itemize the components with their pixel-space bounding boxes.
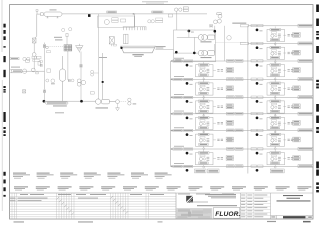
svg-text:FLUOR.: FLUOR. (215, 211, 240, 218)
label on header 2 (152, 11, 163, 13)
wire dotted FR5 (283, 139, 293, 141)
node row FL4 (186, 117, 189, 120)
recirc instrument (227, 36, 231, 40)
agitator box with X (109, 37, 114, 47)
title block frame (176, 193, 313, 219)
instrument cluster FL5 (196, 131, 214, 149)
filter F-1 (33, 38, 37, 53)
label boxes FL2 (226, 86, 233, 91)
revision table frame (10, 193, 177, 219)
wire pot down (33, 56, 35, 69)
vessel legs (47, 16, 59, 18)
wire dotted R2 (283, 52, 293, 54)
drawing number (283, 216, 306, 218)
wire dip line (66, 37, 68, 45)
upper instrument pair left (23, 57, 26, 60)
pump discharge riser B (214, 44, 216, 53)
wire dotted FL6 (213, 157, 223, 159)
pipe spec label bottom run (46, 102, 69, 104)
node row FR4 (256, 117, 259, 120)
row line F2 (171, 78, 314, 80)
wire dotted FL1 (213, 69, 223, 71)
label boxes FR2 (293, 86, 300, 91)
label above inlet flag (11, 67, 20, 68)
node row FR5 (256, 133, 259, 136)
approval grid text (241, 194, 245, 197)
valve above run (40, 64, 42, 67)
instrument cluster FL3 (196, 98, 214, 116)
instrument bubbles right pair (148, 20, 151, 23)
instrument cluster R2 (267, 44, 285, 62)
node row FR6 (256, 152, 259, 155)
distribution manifold riser right (247, 26, 249, 174)
distributor sparge comb (123, 27, 146, 30)
label under valve cluster (47, 51, 51, 53)
fluor logo mark (186, 196, 193, 203)
node row FL1 (186, 64, 189, 67)
label boxes FR1 (293, 68, 300, 73)
wire exchanger drain (67, 51, 69, 80)
instrument cluster FL1 (196, 62, 214, 80)
instrument cluster R1 (267, 26, 285, 44)
wire dotted FL5 (213, 139, 223, 141)
row line R2 (248, 43, 313, 45)
footer notes (14, 221, 25, 222)
node run junction right (80, 100, 83, 103)
label stack 1 (112, 18, 118, 20)
node on tank riser (black square) (102, 81, 104, 83)
node skid top (188, 30, 191, 33)
terminator dots and labels (186, 169, 189, 172)
discharge instrument circle (116, 100, 120, 104)
row line F6 (171, 148, 314, 150)
wire feed drop to filter (35, 14, 37, 38)
title block approval grid (240, 193, 270, 219)
label tank tag (132, 54, 143, 55)
node header junction (black square) (88, 14, 91, 17)
top instruments left of skid (175, 7, 189, 30)
instrument cluster FR5 (267, 131, 285, 149)
margin flag box (10, 57, 19, 59)
label boxes R2 (293, 50, 300, 55)
label on header 1 (107, 11, 117, 13)
package box around instruments (98, 16, 135, 27)
instrument cluster FR2 (267, 80, 285, 98)
instrument cluster FL2 (196, 80, 214, 98)
label boxes right of package (156, 18, 163, 20)
revision check slashes mid (111, 196, 129, 214)
label valve station (133, 103, 137, 104)
wire dotted FR4 (283, 122, 293, 124)
wire dotted FR3 (283, 106, 293, 108)
wire into pump 1 (177, 30, 199, 37)
small box with dip line (66, 34, 68, 37)
revision row text (18, 197, 48, 200)
label tank right (156, 46, 166, 47)
note text in enclosure (175, 59, 181, 60)
equipment title row 1 (13, 173, 30, 179)
instrument bubbles above exchanger (62, 28, 65, 31)
label boxes FR5 (293, 137, 300, 142)
instrument cluster FR4 (267, 114, 285, 132)
label boxes FR6 (293, 156, 300, 161)
project title text (283, 195, 303, 196)
revision check slashes left (57, 197, 75, 215)
row line F3 (171, 96, 314, 98)
upper label boxes (32, 56, 36, 58)
label above distribution wire (232, 23, 246, 24)
metering pump B (198, 50, 214, 56)
node tank inlet (120, 47, 122, 49)
pump discharge riser A (214, 26, 216, 38)
label pump A tag (201, 41, 212, 42)
small symbols above tank left (113, 44, 116, 46)
label boxes FL4 (226, 120, 233, 125)
riser from tank to pump (102, 53, 104, 99)
valve manifold on riser (43, 43, 48, 102)
strainer cone (76, 44, 84, 53)
wire dotted FR1 (283, 69, 293, 71)
node suction header B (193, 52, 196, 55)
instrument cluster FR6 (267, 150, 285, 168)
wire dotted FL4 (213, 122, 223, 124)
node discharge A (214, 30, 217, 33)
stamp blob (177, 208, 213, 218)
node row FR2 (256, 82, 259, 85)
level bubbles on riser (91, 70, 94, 73)
wire tank overflow (155, 49, 173, 51)
wire header arrow (133, 13, 136, 15)
node row FL6 (186, 152, 189, 155)
vessel inlet fitting (41, 13, 44, 16)
label pump tag (96, 107, 109, 108)
seal pot circle (32, 53, 36, 57)
aux riser right of skid (223, 26, 225, 61)
label vessel tag (50, 9, 57, 10)
node row R2 (256, 46, 259, 49)
instrument bubble near distributor (104, 20, 109, 25)
valve on riser lower (43, 90, 45, 93)
day pot vertical drum (60, 56, 66, 101)
vent box (36, 10, 38, 12)
wire drop to distributor (133, 14, 135, 27)
label boxes FL3 (226, 104, 233, 109)
valve station circles (128, 98, 131, 101)
box right of riser (47, 69, 51, 72)
right margin binder marks (316, 5, 319, 193)
wire dotted FL3 (213, 106, 223, 108)
node row FL2 (186, 82, 189, 85)
wire dotted FR2 (283, 88, 293, 90)
revision header text (20, 193, 28, 196)
wire vessel inlet (37, 11, 41, 14)
valve pair right of pot (68, 79, 70, 82)
instrument bubble on riser (46, 79, 49, 82)
tank T-101 sump (121, 46, 156, 53)
row line F4 (171, 113, 314, 115)
stream inlet flag (10, 70, 21, 73)
node suction header A (175, 51, 178, 54)
label small left (26, 60, 30, 62)
wire sample dashed (49, 46, 64, 48)
node row FL5 (186, 133, 189, 136)
inline instrument circle 1 (22, 69, 26, 73)
label near tank riser (99, 57, 107, 58)
label boxes R1 (293, 32, 300, 37)
instrument cluster FR1 (267, 62, 285, 80)
exchanger E-1 hatched (64, 45, 72, 51)
wire dotted FR6 (283, 157, 293, 159)
vessel V-101 horizontal drum (44, 12, 62, 16)
client text block (205, 194, 236, 195)
left margin binder marks (3, 24, 5, 197)
label stack 2 (121, 19, 126, 22)
scale box text (271, 216, 275, 217)
label boxes FR3 (293, 104, 300, 109)
metering pump A (198, 35, 214, 41)
top right instrument pair (217, 13, 222, 23)
row line F7 (171, 165, 314, 167)
small box mid (38, 62, 41, 66)
label near dip line (54, 37, 62, 38)
equipment title row 2 (14, 186, 28, 190)
label boxes FL5 (226, 137, 233, 142)
wire vessel outlet main header (62, 13, 207, 15)
label pump B tag (201, 57, 212, 58)
FLUOR box (214, 208, 240, 219)
row line F1 (171, 60, 314, 62)
centered address line (197, 205, 237, 206)
note line under logo (190, 201, 208, 204)
top margin faint stamp (142, 1, 168, 2)
label header end (168, 14, 172, 17)
label under pipe spec (53, 105, 67, 106)
node row R1 (256, 29, 259, 32)
title block top strip text (178, 193, 190, 196)
wire dashed discharge (119, 101, 126, 103)
wire inlet run (22, 70, 45, 72)
instrument cluster FR3 (267, 98, 285, 116)
instrument cluster FL4 (196, 114, 214, 132)
distribution manifold riser left (170, 61, 172, 167)
drain funnel (116, 108, 120, 111)
wire into pump 2 (174, 37, 199, 53)
row line F5 (171, 130, 314, 132)
riser from header down to pump (98, 14, 100, 99)
row line R1 (248, 25, 313, 27)
label boxes FL1 (226, 68, 233, 73)
inline instrument circle 2 (31, 68, 35, 72)
instrument cluster FL6 (196, 150, 214, 168)
wire dotted R1 (283, 34, 293, 36)
skid enclosure box (174, 30, 216, 62)
label exchanger tag (55, 39, 63, 40)
internal element column (124, 34, 128, 44)
spare pump circles (77, 52, 85, 102)
inline box on run (36, 72, 38, 74)
revision table header line (10, 192, 314, 194)
wire bottom run (44, 100, 96, 102)
pump P-1 (96, 99, 116, 104)
label boxes FR4 (293, 120, 300, 125)
discharge valve and PI (210, 24, 213, 27)
wire dotted FL2 (213, 88, 223, 90)
node row FR1 (256, 64, 259, 67)
label boxes FL6 (226, 156, 233, 161)
instrument on riser mid (51, 79, 55, 83)
node row FR3 (256, 100, 259, 103)
node row FL3 (186, 100, 189, 103)
outer sheet edge line left (1, 0, 3, 52)
wire recirc dashed (216, 42, 247, 44)
small instrument box (91, 92, 95, 95)
node riser to bottom run (43, 100, 46, 103)
instrument square with X (23, 90, 26, 93)
